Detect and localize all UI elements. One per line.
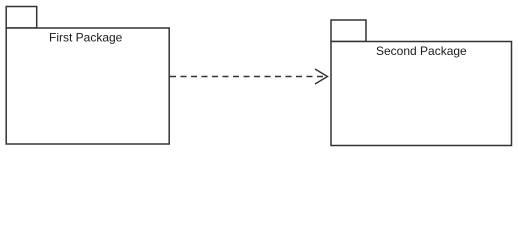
svg-text:First Package: First Package — [49, 31, 123, 45]
svg-text:Second Package: Second Package — [376, 44, 467, 58]
package Second Package: body — [331, 42, 512, 146]
package Second Package: tab — [331, 20, 366, 42]
dashed dependency arrow: open arrowhead — [315, 69, 328, 84]
package First Package: body — [6, 28, 169, 144]
dashed dependency arrow: shaft — [170, 76, 326, 78]
package First Package: tab — [6, 7, 37, 29]
